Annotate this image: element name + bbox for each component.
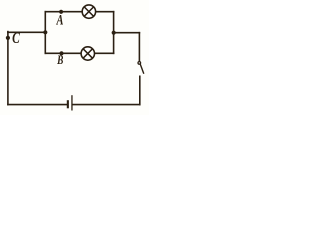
svg-text:B: B xyxy=(56,54,63,68)
wire bottom branch xyxy=(45,52,113,54)
lamp A (circle with cross) xyxy=(82,5,95,18)
battery positive plate (long thin) xyxy=(71,95,72,110)
junction dot left node xyxy=(43,30,47,34)
node A dot xyxy=(59,10,63,14)
wire from node C to left node xyxy=(8,31,45,33)
battery negative plate (short thick) xyxy=(67,100,69,108)
switch blade (open) xyxy=(140,64,144,73)
wire bottom right from battery xyxy=(73,104,140,106)
wire right side below switch xyxy=(139,76,141,104)
svg-text:A: A xyxy=(56,12,64,28)
wire bottom left to battery xyxy=(8,104,66,106)
svg-text:C: C xyxy=(12,31,20,48)
wire right side above switch xyxy=(138,33,140,61)
lamp B (circle with cross) xyxy=(81,47,94,60)
junction dot right node xyxy=(112,31,116,35)
node C dot xyxy=(6,36,10,40)
wire right connector of parallel section xyxy=(113,12,115,54)
wire top branch xyxy=(45,11,113,13)
wire from right node to switch xyxy=(114,32,140,34)
wire left connector of parallel section xyxy=(44,12,46,54)
switch pivot circle xyxy=(138,62,141,65)
node B dot xyxy=(59,51,63,55)
wire left side vertical xyxy=(7,32,9,105)
